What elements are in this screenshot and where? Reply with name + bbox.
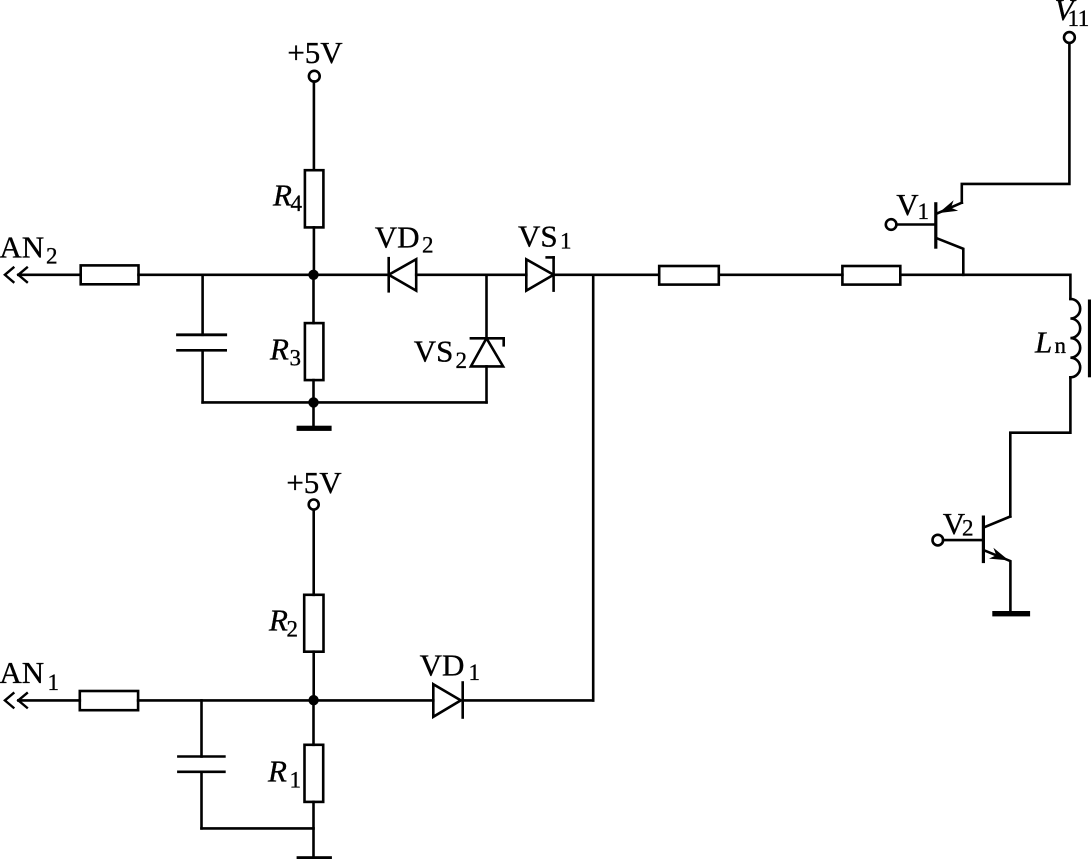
svg-text:2: 2 — [46, 243, 58, 268]
svg-text:R: R — [267, 753, 287, 788]
svg-text:AN: AN — [0, 655, 44, 690]
svg-text:1: 1 — [48, 670, 60, 695]
svg-text:R: R — [268, 603, 288, 638]
svg-text:+5V: +5V — [287, 35, 343, 70]
svg-text:L: L — [1034, 325, 1052, 360]
svg-text:VD: VD — [375, 219, 420, 254]
svg-text:4: 4 — [291, 191, 303, 216]
svg-text:AN: AN — [0, 229, 44, 264]
svg-text:2: 2 — [287, 617, 299, 642]
svg-text:+5V: +5V — [286, 465, 342, 500]
svg-text:VD: VD — [420, 647, 465, 682]
svg-text:1: 1 — [560, 228, 572, 253]
svg-text:R: R — [269, 331, 289, 366]
svg-text:2: 2 — [456, 348, 468, 373]
svg-text:VS: VS — [414, 334, 454, 369]
svg-text:n: n — [1055, 333, 1067, 358]
svg-text:R: R — [272, 178, 292, 213]
svg-text:3: 3 — [290, 345, 302, 370]
svg-text:2: 2 — [962, 515, 974, 540]
svg-text:1: 1 — [1078, 6, 1090, 31]
svg-text:VS: VS — [518, 218, 558, 253]
svg-text:1: 1 — [469, 660, 481, 685]
svg-text:2: 2 — [422, 232, 434, 257]
svg-text:1: 1 — [918, 199, 930, 224]
svg-text:1: 1 — [290, 768, 302, 793]
svg-text:V: V — [896, 187, 919, 222]
